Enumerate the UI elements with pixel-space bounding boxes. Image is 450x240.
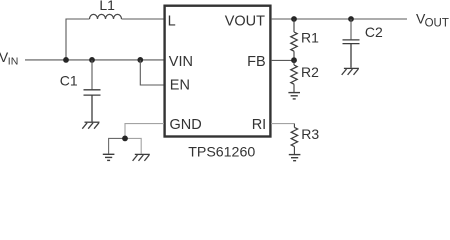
svg-text:R1: R1 bbox=[301, 30, 319, 46]
svg-text:FB: FB bbox=[247, 54, 266, 70]
node VOUT label bbox=[416, 10, 449, 29]
svg-text:L: L bbox=[168, 13, 176, 29]
svg-text:R3: R3 bbox=[301, 126, 319, 142]
wire FB pin bbox=[271, 59, 294, 61]
wire RI pin bbox=[271, 123, 294, 125]
junction dot FB bbox=[291, 57, 297, 63]
svg-text:VIN: VIN bbox=[169, 54, 193, 70]
junction dot VIN/C1 bbox=[89, 57, 95, 63]
power ground right of GND bbox=[133, 154, 150, 161]
svg-text:IN: IN bbox=[8, 56, 18, 68]
wire VIN input to IC bbox=[25, 59, 164, 61]
resistor R2 bbox=[291, 60, 297, 92]
resistor R1 bbox=[291, 19, 297, 60]
signal ground under R2 bbox=[288, 93, 300, 99]
wire GND pin to junction bbox=[125, 124, 164, 139]
svg-text:OUT: OUT bbox=[425, 17, 449, 29]
wire GND junction to power ground bbox=[125, 138, 141, 154]
signal ground under R3 bbox=[289, 155, 301, 161]
power ground under C2 bbox=[342, 68, 359, 75]
wire C2 branch bbox=[350, 19, 352, 39]
wire VOUT pin to VOUT node bbox=[271, 18, 407, 20]
svg-text:C2: C2 bbox=[365, 24, 383, 40]
inductor L1 bbox=[90, 14, 122, 19]
wire L1 to L pin bbox=[122, 18, 165, 20]
svg-text:L1: L1 bbox=[99, 0, 115, 13]
svg-text:R2: R2 bbox=[301, 64, 319, 80]
junction dot VOUT/R1 bbox=[291, 16, 297, 22]
junction dot VIN/L1 bbox=[63, 57, 69, 63]
junction dot GND bbox=[122, 136, 128, 142]
capacitor C2 bbox=[343, 40, 360, 68]
wire EN branch bbox=[140, 60, 164, 85]
wire GND junction to signal ground bbox=[109, 138, 125, 153]
resistor R3 bbox=[291, 124, 297, 154]
svg-text:VOUT: VOUT bbox=[225, 13, 265, 29]
svg-text:GND: GND bbox=[170, 117, 202, 133]
wire C1 branch bbox=[91, 60, 93, 89]
junction dot VOUT/C2 bbox=[348, 16, 354, 22]
svg-text:C1: C1 bbox=[60, 73, 78, 89]
node VIN label bbox=[0, 49, 18, 68]
svg-text:EN: EN bbox=[170, 78, 190, 94]
wire L1 branch up bbox=[66, 19, 90, 60]
svg-text:TPS61260: TPS61260 bbox=[188, 144, 255, 160]
junction dot VIN/EN bbox=[137, 57, 143, 63]
signal ground left of GND bbox=[103, 154, 115, 160]
power ground under C1 bbox=[82, 122, 99, 129]
svg-text:RI: RI bbox=[252, 117, 267, 133]
op IC U1 TPS61260 box bbox=[165, 6, 271, 137]
capacitor C1 bbox=[84, 90, 101, 122]
